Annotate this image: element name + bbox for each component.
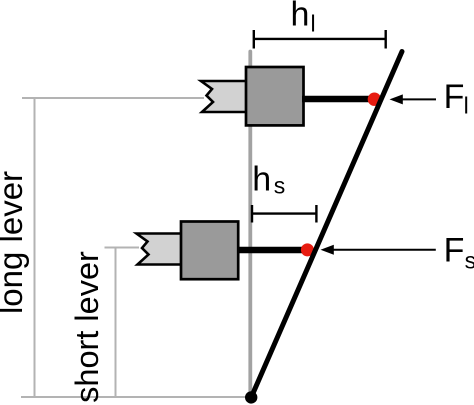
svg-text:h: h	[252, 160, 271, 198]
svg-text:s: s	[274, 173, 286, 199]
svg-text:l: l	[464, 93, 469, 119]
svg-text:F: F	[444, 78, 465, 116]
svg-text:s: s	[465, 247, 474, 273]
svg-text:short lever: short lever	[69, 251, 105, 403]
svg-text:F: F	[444, 232, 465, 270]
svg-text:long lever: long lever	[0, 171, 29, 314]
svg-text:h: h	[291, 0, 310, 34]
svg-text:l: l	[311, 11, 316, 37]
